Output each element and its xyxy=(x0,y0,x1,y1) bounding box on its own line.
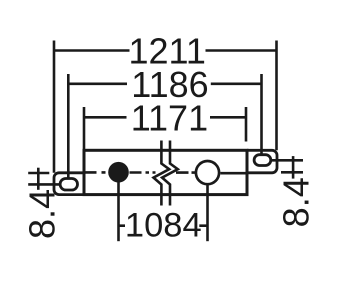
fixture body outline xyxy=(84,150,247,194)
dimension 1186 right extension line xyxy=(260,74,263,155)
break symbol right line xyxy=(162,141,178,206)
dimension 1171 right extension line xyxy=(245,107,248,142)
dimension 1186 left extension line xyxy=(67,74,70,178)
break symbol left line xyxy=(154,141,170,206)
dimension text 1211 xyxy=(128,30,205,71)
dimension 1171 left extension line xyxy=(83,107,86,150)
dimension 1211 left extension line xyxy=(53,41,56,173)
lamp holder circle (filled) xyxy=(108,162,129,183)
dimension 1171 line xyxy=(84,116,246,119)
dimension 8.4 right line xyxy=(292,156,295,179)
center line (dash-dot) left of filled circle xyxy=(84,171,106,174)
dimension 1084 line xyxy=(119,224,208,227)
dimension 1211 right extension line xyxy=(275,41,278,151)
svg-text:8.4: 8.4 xyxy=(275,177,316,227)
svg-text:8.4: 8.4 xyxy=(22,189,63,239)
dimension 8.4 left line xyxy=(37,168,40,190)
dimension text 8.4 right (rotated) xyxy=(275,177,316,227)
center line right of open circle xyxy=(221,172,248,175)
right mounting tab xyxy=(247,150,277,173)
left tab slot xyxy=(60,179,77,191)
left mounting tab xyxy=(54,173,84,195)
dimension text 1084 xyxy=(125,207,202,245)
lamp holder circle (open) xyxy=(196,161,219,184)
dimension text 8.4 left (rotated) xyxy=(22,189,63,239)
dimension 8.4 right ticks xyxy=(271,160,303,172)
dimension text 1171 xyxy=(131,97,208,138)
dimension 1211 line xyxy=(54,49,277,52)
dimension 1084 right extension line xyxy=(206,184,209,241)
svg-text:1084: 1084 xyxy=(125,207,202,245)
dimension 1186 line xyxy=(68,83,261,86)
center line between filled circle and break xyxy=(130,171,156,174)
dimension text 1186 xyxy=(131,64,208,105)
right tab slot xyxy=(254,155,271,166)
dimension 1084 left extension line xyxy=(117,181,120,241)
center line between break and open circle xyxy=(176,171,195,174)
dimension 8.4 left ticks xyxy=(28,173,60,184)
svg-text:1171: 1171 xyxy=(131,97,208,138)
